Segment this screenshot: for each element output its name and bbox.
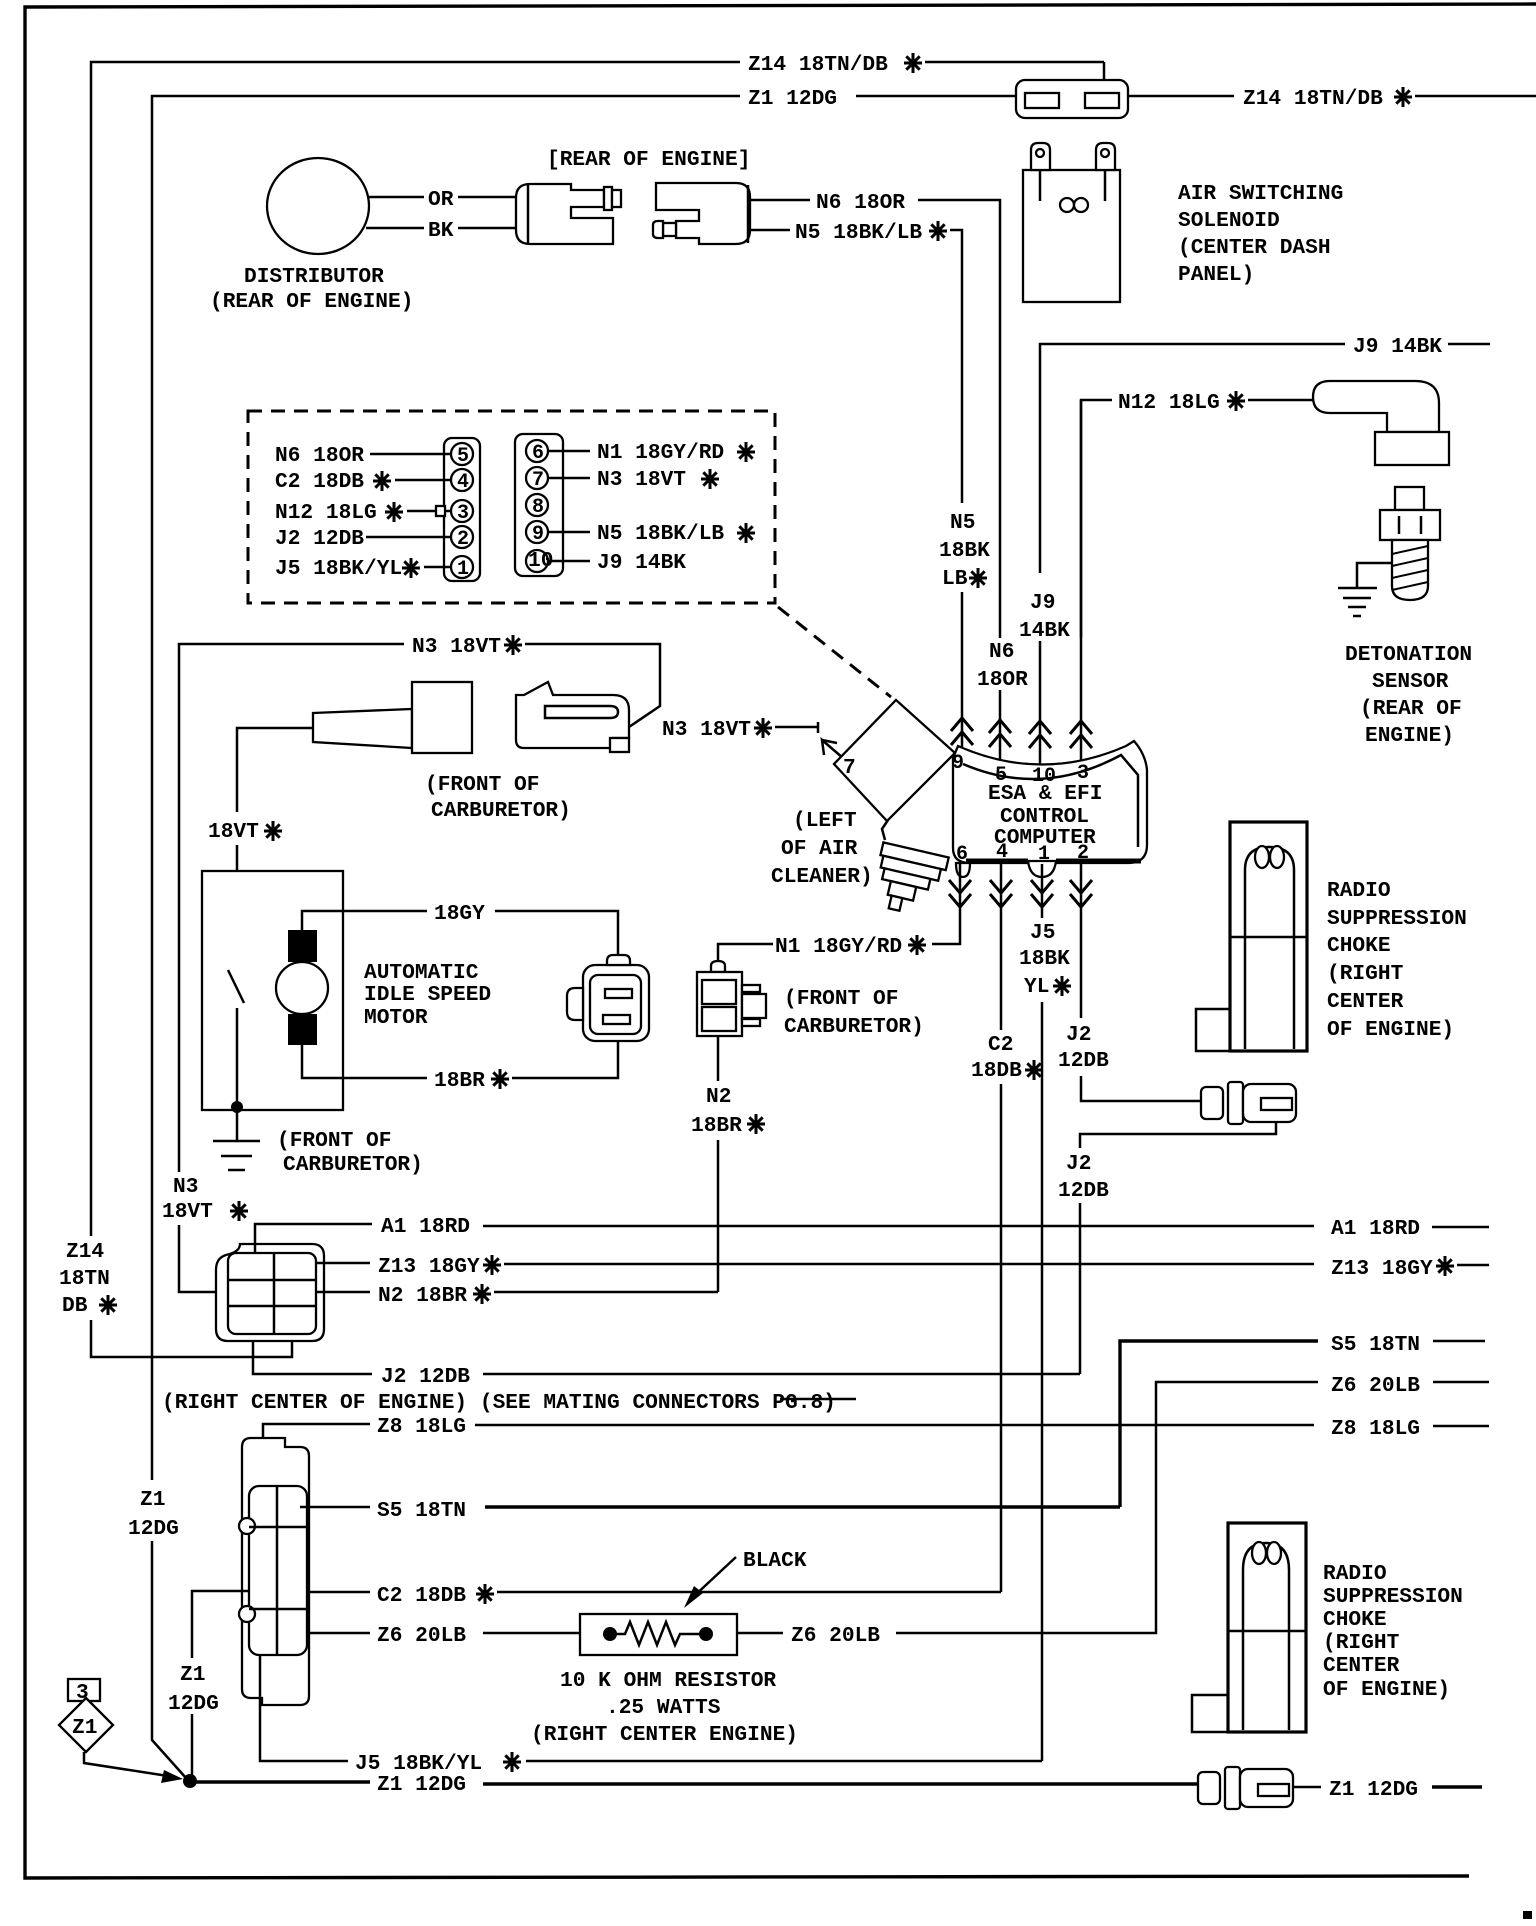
svg-text:Z1: Z1 (140, 1488, 165, 1512)
svg-text:18VT: 18VT (162, 1200, 213, 1224)
junction dot AIS ground (231, 1101, 243, 1113)
distributor (267, 158, 369, 254)
automatic idle speed motor box (202, 871, 343, 1110)
carb mating connector (516, 682, 629, 748)
svg-text:SUPPRESSION: SUPPRESSION (1323, 1585, 1463, 1609)
svg-text:Z1 12DG: Z1 12DG (748, 87, 837, 111)
svg-text:J9 14BK: J9 14BK (1353, 335, 1442, 359)
svg-text:18GY: 18GY (434, 902, 485, 926)
svg-text:SUPPRESSION: SUPPRESSION (1327, 907, 1467, 931)
svg-text:12DG: 12DG (168, 1692, 219, 1716)
svg-text:N5 18BK/LB: N5 18BK/LB (795, 221, 922, 245)
wire N2 18BR (316, 1291, 370, 1294)
svg-text:7: 7 (532, 469, 544, 492)
svg-text:18VT: 18VT (208, 820, 259, 844)
svg-text:J2 12DB: J2 12DB (275, 527, 364, 551)
pin 1 (451, 556, 473, 578)
svg-text:Z1 12DG: Z1 12DG (377, 1773, 466, 1797)
svg-text:Z8 18LG: Z8 18LG (377, 1415, 466, 1439)
pin 9 (526, 521, 548, 543)
svg-text:N3 18VT: N3 18VT (412, 635, 501, 659)
svg-text:N3 18VT: N3 18VT (597, 468, 686, 492)
svg-text:S5 18TN: S5 18TN (1331, 1333, 1420, 1357)
ground AIS (236, 1110, 239, 1141)
radio suppression choke (top) (1230, 822, 1307, 1051)
engine connector (2x3) (216, 1244, 324, 1341)
wire N2 18BR (717, 1036, 720, 1081)
svg-text:12DG: 12DG (128, 1517, 179, 1541)
svg-text:(RIGHT: (RIGHT (1323, 1631, 1400, 1655)
svg-text:N5: N5 (950, 511, 975, 535)
svg-text:18BK: 18BK (1019, 947, 1070, 971)
svg-text:10 K OHM RESISTOR: 10 K OHM RESISTOR (560, 1669, 776, 1693)
svg-text:Z13 18GY: Z13 18GY (378, 1255, 480, 1279)
svg-text:CHOKE: CHOKE (1323, 1608, 1387, 1632)
pin 10 (526, 550, 548, 572)
pin 4 (451, 469, 473, 491)
carb connector nose (313, 709, 412, 748)
wire N12 18LG (1081, 400, 1112, 638)
svg-text:ESA & EFI: ESA & EFI (988, 782, 1102, 806)
svg-text:18BR: 18BR (434, 1069, 485, 1093)
svg-text:18BK: 18BK (939, 539, 990, 563)
svg-text:18DB: 18DB (971, 1059, 1022, 1083)
svg-text:7: 7 (843, 756, 856, 780)
svg-text:(FRONT OF: (FRONT OF (277, 1129, 391, 1153)
svg-text:9: 9 (952, 752, 964, 775)
svg-text:J2: J2 (1066, 1152, 1091, 1176)
svg-text:Z1: Z1 (180, 1663, 205, 1687)
svg-text:CARBURETOR): CARBURETOR) (431, 799, 571, 823)
svg-text:(CENTER DASH: (CENTER DASH (1178, 236, 1331, 260)
svg-text:J2: J2 (1066, 1023, 1091, 1047)
air switching solenoid (1023, 170, 1120, 302)
wire Z1 12DG top (152, 96, 740, 1480)
wire 18GY (302, 911, 427, 930)
wire OR (369, 196, 424, 199)
svg-text:CARBURETOR): CARBURETOR) (283, 1153, 423, 1177)
svg-text:(RIGHT CENTER ENGINE): (RIGHT CENTER ENGINE) (531, 1723, 798, 1747)
svg-text:N3: N3 (173, 1175, 198, 1199)
svg-text:(RIGHT CENTER OF ENGINE) (SEE: (RIGHT CENTER OF ENGINE) (SEE MATING CON… (162, 1391, 836, 1415)
svg-text:C2 18DB: C2 18DB (275, 470, 364, 494)
svg-text:CENTER: CENTER (1327, 990, 1404, 1014)
svg-text:(REAR OF ENGINE): (REAR OF ENGINE) (210, 290, 413, 314)
svg-text:CENTER: CENTER (1323, 1654, 1400, 1678)
svg-text:2: 2 (1077, 842, 1089, 865)
wire 18BR (302, 1045, 427, 1078)
right pin labels (548, 450, 590, 453)
svg-text:J9 14BK: J9 14BK (597, 551, 686, 575)
bullet connector Z1 (1198, 1772, 1220, 1804)
svg-text:[REAR OF ENGINE]: [REAR OF ENGINE] (547, 148, 750, 172)
svg-text:N3 18VT: N3 18VT (662, 718, 751, 742)
connector (2-cavity) top (1016, 80, 1128, 118)
pin 5 (451, 443, 473, 465)
svg-text:Z1 12DG: Z1 12DG (1329, 1778, 1418, 1802)
page mark (1523, 1911, 1532, 1919)
boot connector detonation (1313, 381, 1439, 432)
svg-text:IDLE SPEED: IDLE SPEED (364, 983, 491, 1007)
svg-text:6: 6 (956, 843, 968, 866)
svg-text:Z13 18GY: Z13 18GY (1331, 1257, 1433, 1281)
svg-text:Z6 20LB: Z6 20LB (791, 1624, 880, 1648)
arrows out of computer (949, 880, 971, 907)
arrows into computer (951, 718, 973, 745)
connector block right (pins 6-10) (515, 434, 563, 576)
svg-text:OR: OR (428, 188, 454, 212)
svg-text:9: 9 (532, 523, 544, 546)
engine connector (2x3 tall) (242, 1438, 309, 1705)
connector B rear of engine (656, 183, 750, 244)
svg-text:14BK: 14BK (1019, 619, 1070, 643)
svg-text:N6: N6 (989, 640, 1014, 664)
connector block left (pins 1-5) (444, 438, 480, 581)
svg-text:A1 18RD: A1 18RD (381, 1215, 470, 1239)
svg-text:C2 18DB: C2 18DB (377, 1584, 466, 1608)
svg-text:1: 1 (457, 558, 469, 581)
wire J9 14BK (1040, 344, 1345, 573)
wire BK (366, 227, 424, 230)
svg-text:2: 2 (457, 528, 469, 551)
svg-text:DB: DB (62, 1294, 88, 1318)
wire S5 18TN (300, 1506, 370, 1509)
svg-text:.25 WATTS: .25 WATTS (606, 1696, 721, 1720)
svg-text:PANEL): PANEL) (1178, 263, 1254, 287)
wire Z1 12DG to connector (191, 1714, 194, 1775)
wire stub to carb connector (237, 728, 313, 812)
carb connector body (412, 682, 472, 753)
svg-text:DETONATION: DETONATION (1345, 643, 1472, 667)
radio suppression choke (bottom) (1228, 1523, 1306, 1732)
svg-text:DISTRIBUTOR: DISTRIBUTOR (244, 265, 384, 289)
wire J2 12DB pin2 (1080, 864, 1083, 1018)
wire J2 return (1080, 1122, 1276, 1148)
svg-text:5: 5 (457, 445, 469, 468)
svg-text:(REAR OF: (REAR OF (1360, 697, 1462, 721)
svg-text:S5 18TN: S5 18TN (377, 1499, 466, 1523)
svg-text:N5 18BK/LB: N5 18BK/LB (597, 522, 724, 546)
wire N6 18OR (750, 199, 810, 202)
svg-text:J5 18BK/YL: J5 18BK/YL (275, 557, 402, 581)
wire Z1 12DG bottom (196, 1780, 370, 1783)
svg-text:18TN: 18TN (59, 1267, 110, 1291)
svg-text:C2: C2 (988, 1033, 1013, 1057)
svg-text:BK: BK (428, 219, 454, 243)
dashed detail box (248, 411, 775, 603)
wire Z6 20LB (307, 1632, 370, 1635)
svg-text:4: 4 (457, 471, 469, 494)
svg-text:CLEANER): CLEANER) (771, 865, 873, 889)
svg-text:(LEFT: (LEFT (793, 809, 857, 833)
svg-text:Z14: Z14 (66, 1240, 104, 1264)
svg-text:ENGINE): ENGINE) (1365, 724, 1454, 748)
svg-text:RADIO: RADIO (1323, 1562, 1387, 1586)
svg-text:A1 18RD: A1 18RD (1331, 1217, 1420, 1241)
svg-text:12DB: 12DB (1058, 1049, 1109, 1073)
pin 6 (526, 440, 548, 462)
svg-text:AUTOMATIC: AUTOMATIC (364, 961, 479, 985)
svg-text:(FRONT OF: (FRONT OF (425, 773, 539, 797)
AIS mating connector (583, 965, 649, 1041)
svg-text:Z14 18TN/DB: Z14 18TN/DB (1243, 87, 1383, 111)
connector A rear of engine (516, 184, 613, 244)
svg-text:18BR: 18BR (691, 1114, 742, 1138)
dashed leader to sensor (778, 607, 891, 697)
svg-text:CARBURETOR): CARBURETOR) (784, 1015, 924, 1039)
wire Z14 to connector (91, 1320, 292, 1357)
wire Z8 18LG (263, 1424, 370, 1490)
svg-text:12DB: 12DB (1058, 1179, 1109, 1203)
wire N5 18BK/LB (750, 229, 790, 232)
svg-text:Z6 20LB: Z6 20LB (1331, 1374, 1420, 1398)
svg-text:8: 8 (532, 496, 544, 519)
junction Z1 (183, 1774, 197, 1788)
svg-text:RADIO: RADIO (1327, 879, 1391, 903)
svg-text:N2: N2 (706, 1085, 731, 1109)
svg-text:6: 6 (532, 442, 544, 465)
svg-text:J2 12DB: J2 12DB (381, 1365, 470, 1389)
svg-text:J5: J5 (1030, 921, 1055, 945)
svg-text:N1 18GY/RD: N1 18GY/RD (775, 935, 902, 959)
svg-text:N6 18OR: N6 18OR (816, 191, 905, 215)
svg-text:YL: YL (1024, 975, 1049, 999)
wire Z14 18TN/DB right (1128, 95, 1234, 98)
air cleaner sensor (pin 7) (834, 700, 955, 821)
svg-text:Z1: Z1 (72, 1716, 97, 1740)
svg-text:18OR: 18OR (977, 668, 1028, 692)
svg-text:SOLENOID: SOLENOID (1178, 209, 1280, 233)
sensor funnel (882, 820, 888, 840)
svg-text:AIR SWITCHING: AIR SWITCHING (1178, 182, 1343, 206)
pin 2 (451, 526, 473, 548)
detonation sensor (1395, 487, 1424, 510)
svg-text:CHOKE: CHOKE (1327, 934, 1391, 958)
page connector 3/Z1 (68, 1679, 100, 1701)
wire J5 18BK/YL bottom (260, 1655, 348, 1761)
wire C2 18DB pin4 (1000, 864, 1003, 1030)
svg-text:OF ENGINE): OF ENGINE) (1323, 1678, 1450, 1702)
svg-text:Z14 18TN/DB: Z14 18TN/DB (748, 53, 888, 77)
bullet connector J2 (1201, 1087, 1223, 1119)
ground detonation (1357, 563, 1392, 588)
wire Z6 20LB right (737, 1632, 783, 1635)
svg-text:(FRONT OF: (FRONT OF (784, 987, 898, 1011)
svg-text:BLACK: BLACK (743, 1549, 807, 1573)
svg-text:N12 18LG: N12 18LG (275, 501, 377, 525)
svg-text:3: 3 (457, 502, 469, 525)
10k resistor (580, 1614, 737, 1655)
motor M (288, 930, 317, 962)
svg-text:OF AIR: OF AIR (781, 837, 858, 861)
svg-text:MOTOR: MOTOR (364, 1006, 428, 1030)
wire Z14 18TN/DB top (91, 62, 740, 1236)
svg-text:4: 4 (996, 841, 1008, 864)
svg-text:OF ENGINE): OF ENGINE) (1327, 1018, 1454, 1042)
ESA &amp; EFI control computer (953, 741, 1147, 863)
svg-text:Z6 20LB: Z6 20LB (377, 1624, 466, 1648)
svg-text:SENSOR: SENSOR (1372, 670, 1449, 694)
wire C2 18DB bottom (307, 1591, 370, 1594)
svg-text:N2 18BR: N2 18BR (378, 1284, 467, 1308)
wire N3 18VT upper (179, 644, 404, 1172)
svg-text:1: 1 (1038, 843, 1050, 866)
svg-text:(RIGHT: (RIGHT (1327, 962, 1404, 986)
svg-text:LB: LB (942, 567, 968, 591)
svg-text:N1 18GY/RD: N1 18GY/RD (597, 441, 724, 465)
pin 8 (526, 494, 548, 516)
pin 3 (451, 500, 473, 522)
svg-text:Z8 18LG: Z8 18LG (1331, 1417, 1420, 1441)
wire Z13 18GY (316, 1262, 370, 1265)
arrow to sensor pin7 (822, 740, 843, 758)
wire J5 18BK/YL pin1 (1041, 864, 1044, 918)
pin 7 (526, 467, 548, 489)
svg-text:N6 18OR: N6 18OR (275, 444, 364, 468)
wire A1 18RD (255, 1224, 372, 1253)
wire N1 18GY/RD pin6 (932, 864, 960, 944)
svg-text:N12 18LG: N12 18LG (1118, 391, 1220, 415)
switch contact (228, 970, 244, 1003)
svg-text:J9: J9 (1030, 591, 1055, 615)
carb connector N1/N2 (711, 961, 725, 972)
wire J2 12DB bottom (253, 1341, 372, 1374)
